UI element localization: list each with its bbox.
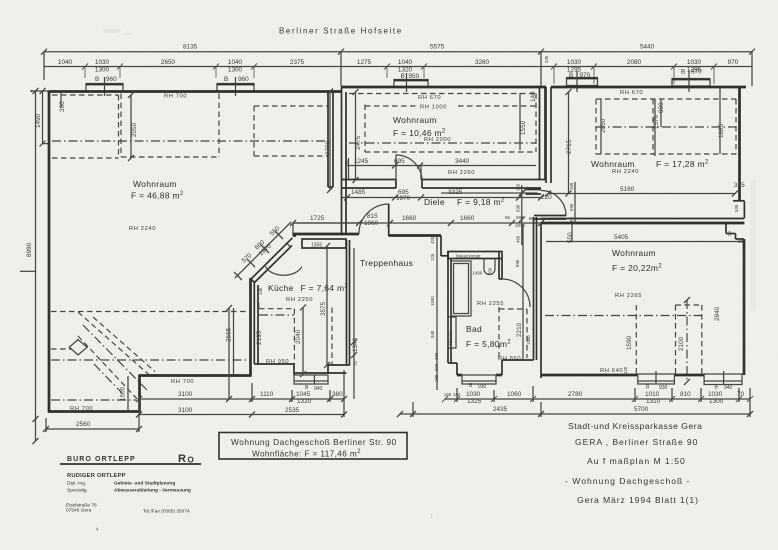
bottom wall — [541, 374, 638, 377]
bottom dim rows right — [397, 386, 753, 417]
bottom wall with door gap — [341, 179, 396, 181]
window B960 W1 — [86, 84, 123, 92]
right bottom text block — [565, 421, 702, 505]
window B970 W5 — [672, 79, 710, 87]
Bad — [389, 236, 534, 391]
Küche diagonal + walls — [226, 204, 389, 392]
room 20,22 — [534, 204, 746, 391]
left room interior dashes — [51, 94, 332, 413]
bottom thick wall (also top of room 20,22) — [541, 218, 744, 220]
top dim row 2 — [44, 55, 752, 84]
right wall double — [539, 87, 541, 179]
left vertical dim — [20, 88, 49, 444]
bathtub — [451, 261, 471, 316]
right wall + steps — [725, 223, 727, 234]
middle room interior — [344, 91, 537, 180]
interior dashes — [596, 98, 736, 100]
corridor dims near Bad top — [441, 183, 538, 245]
vertical dim column between kueche and treppenhaus — [351, 248, 359, 399]
door arc Kueche — [266, 267, 302, 276]
windows top — [86, 69, 710, 97]
bottom — [448, 362, 457, 364]
door arc Bad — [502, 279, 530, 307]
Mauerv. box — [448, 317, 456, 348]
diagonal hatch band bottom-left — [51, 312, 155, 402]
door arc Wohnraum 17,28 — [541, 191, 566, 216]
kueche diagonal dimension — [234, 222, 291, 280]
bottom dim rows left — [43, 370, 347, 432]
door arc Wohnraum 10,46 — [396, 155, 422, 181]
shelf 1355 box wall — [293, 233, 359, 236]
walls: left room — [48, 91, 341, 413]
vertical dim lines for rotated labels — [46, 87, 720, 432]
right wall of left room (double) — [327, 92, 329, 188]
door arc Treppenhaus — [359, 204, 389, 234]
dim row inside bottom — [349, 165, 536, 167]
right top room (17,28) — [541, 86, 746, 223]
chimney diamond — [69, 340, 87, 355]
Treppenhaus top wall — [293, 234, 296, 237]
window B960 W2 — [217, 84, 254, 92]
right wall + door — [498, 252, 500, 279]
middle room (10,46) walls — [341, 87, 546, 235]
5160 dim — [548, 193, 735, 195]
scan smudges — [103, 29, 121, 33]
kueche right wall — [346, 240, 348, 366]
Diele — [293, 189, 544, 228]
window B950 W3 — [394, 80, 428, 88]
door Diele->20,22 — [523, 182, 574, 222]
5405 dim — [546, 241, 744, 243]
buro ortlepp block — [60, 453, 201, 515]
window B970 W4 — [567, 78, 598, 86]
niche 700 — [484, 259, 495, 275]
interior dashes — [545, 315, 702, 317]
label box — [219, 433, 407, 460]
top dim row 1 — [41, 44, 755, 87]
dims 1725 row — [290, 213, 379, 236]
